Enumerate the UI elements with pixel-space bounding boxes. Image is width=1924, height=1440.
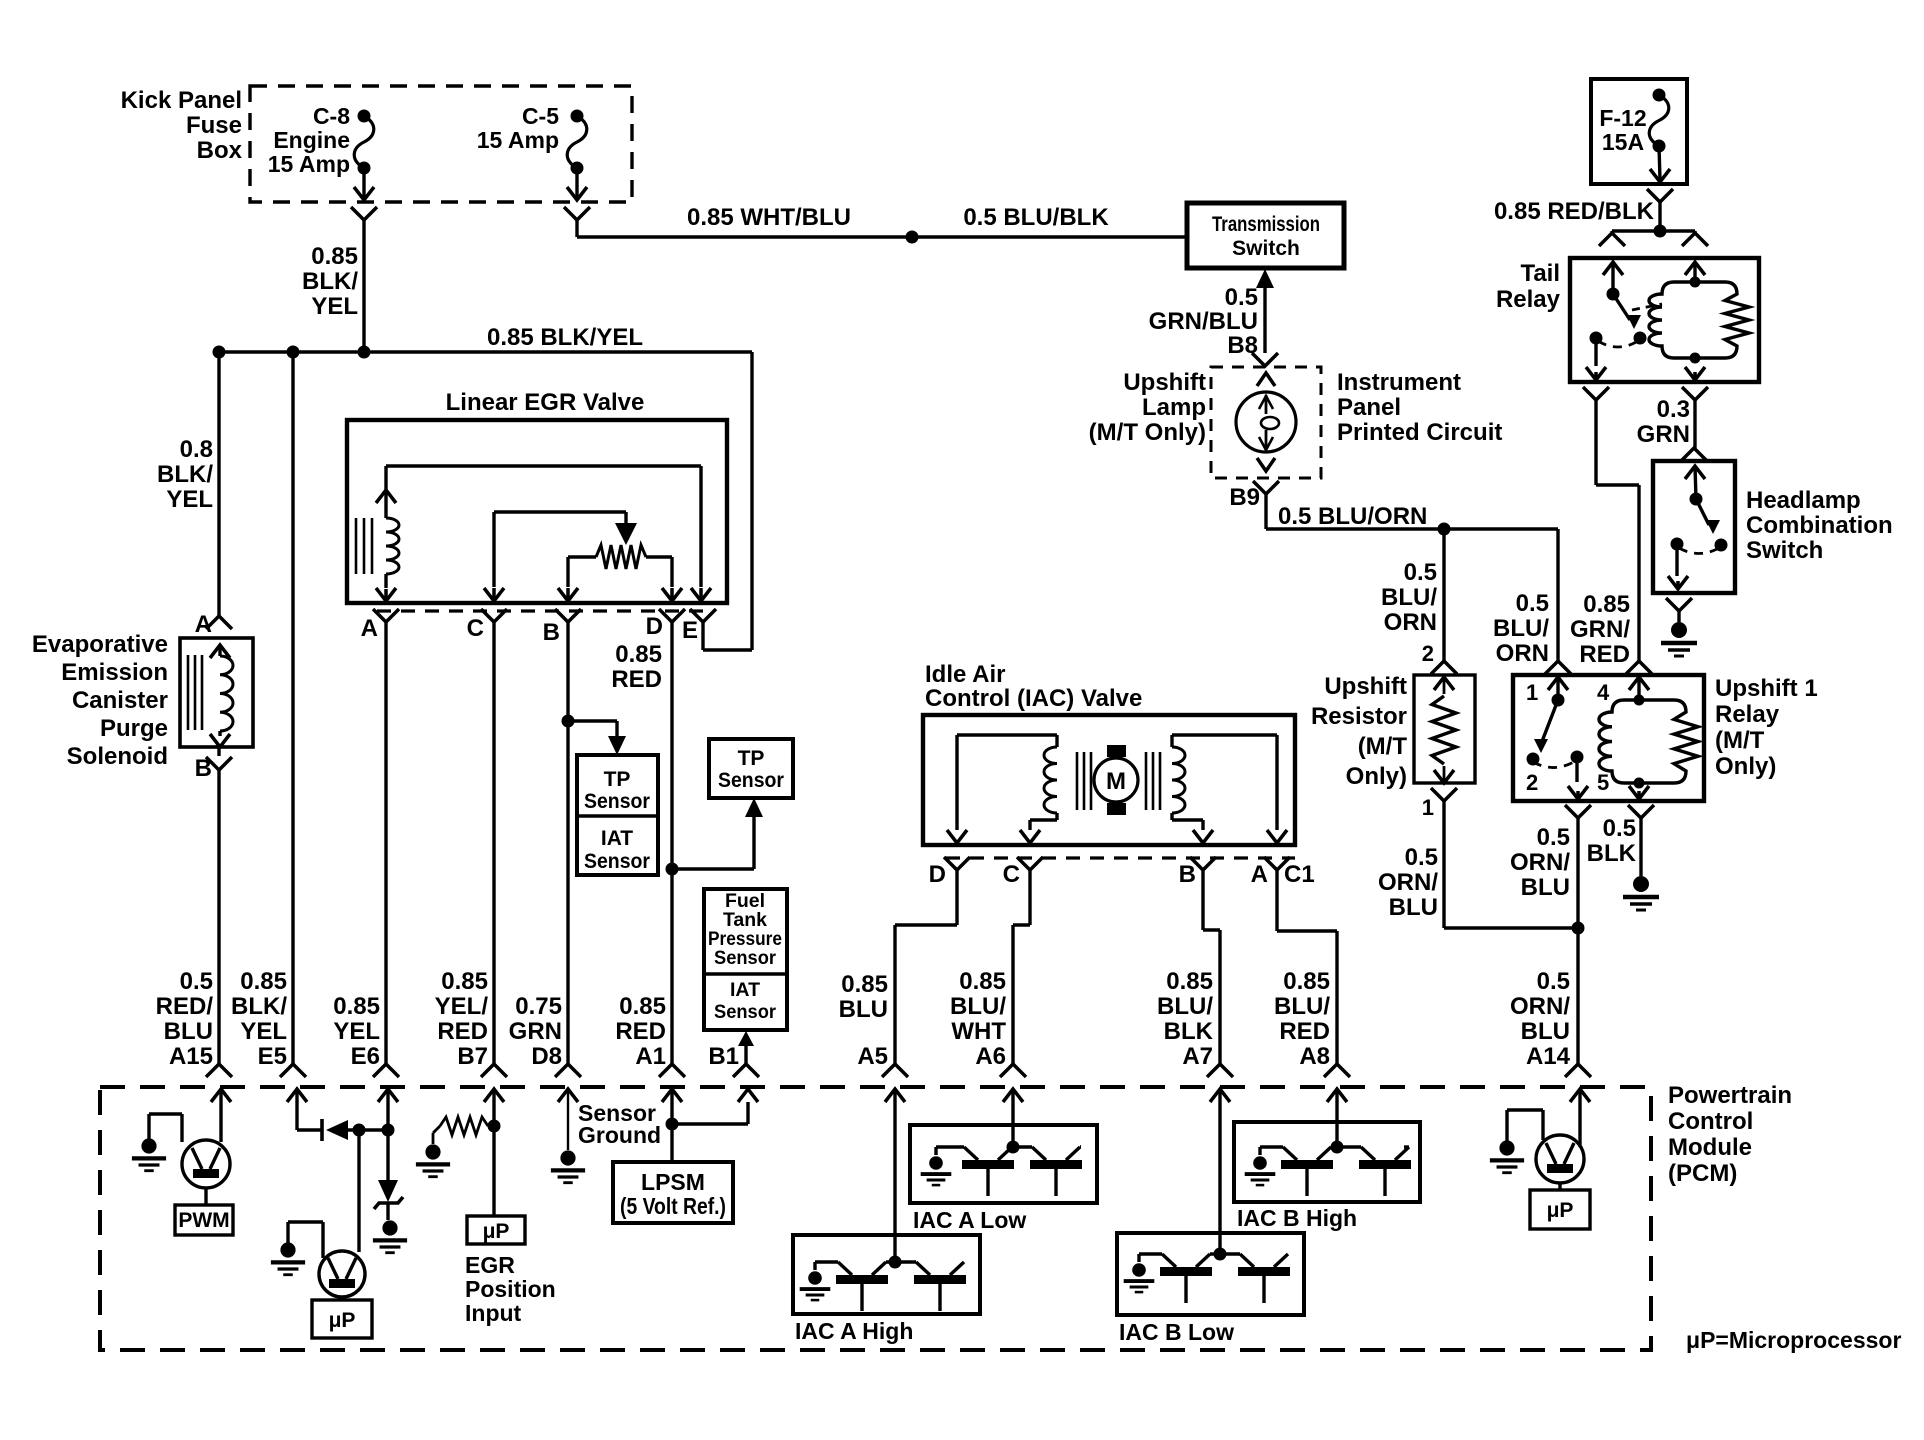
tail relay switch arm xyxy=(1613,294,1641,329)
label EGR pin D xyxy=(646,613,663,640)
tail relay coil xyxy=(1649,277,1749,364)
svg-text:E: E xyxy=(682,617,698,644)
PCM E6 internal wire xyxy=(378,1089,398,1180)
svg-text:Sensor: Sensor xyxy=(718,769,784,792)
svg-text:0.5: 0.5 xyxy=(1404,559,1437,586)
IAC connector dashed line xyxy=(946,856,1295,859)
wire fuse C-8 to BLK/YEL bus xyxy=(362,220,365,352)
label IAC pin C xyxy=(1003,861,1020,888)
svg-text:(PCM): (PCM) xyxy=(1668,1160,1737,1187)
svg-text:A14: A14 xyxy=(1526,1043,1571,1070)
TP sensor / IAT sensor box xyxy=(577,755,658,875)
label B9 xyxy=(1229,484,1260,511)
svg-text:0.85: 0.85 xyxy=(1166,968,1213,995)
evap solenoid coil xyxy=(188,645,233,747)
svg-text:1: 1 xyxy=(1526,680,1538,705)
headlamp switch arm xyxy=(1696,499,1720,534)
svg-text:(M/T Only): (M/T Only) xyxy=(1089,419,1206,446)
wire transistor Q2 to uP xyxy=(340,1297,343,1300)
junction on RED wire xyxy=(666,863,679,876)
wire 0.5 BLU/ORN to relay pin 1 xyxy=(1556,529,1559,661)
svg-text:Solenoid: Solenoid xyxy=(67,743,168,770)
svg-text:TP: TP xyxy=(604,768,631,791)
svg-text:A: A xyxy=(1251,861,1268,888)
relay switch contacts xyxy=(1527,751,1584,766)
svg-text:Box: Box xyxy=(197,137,243,164)
svg-text:Purge: Purge xyxy=(100,715,168,742)
label C1 xyxy=(1284,861,1315,888)
svg-text:A5: A5 xyxy=(857,1043,888,1070)
ground (headlamp switch) xyxy=(1661,622,1697,656)
LPSM box xyxy=(613,1162,733,1223)
svg-text:BLK/: BLK/ xyxy=(302,268,358,295)
junction ORN/BLU xyxy=(1572,922,1585,935)
wire 0.5 ORN/BLU from resistor xyxy=(1444,801,1578,928)
svg-text:Sensor: Sensor xyxy=(714,1001,776,1023)
label TP Sensor xyxy=(718,747,784,792)
svg-text:GRN: GRN xyxy=(509,1018,562,1045)
powertrain control module dashed box xyxy=(100,1087,1651,1350)
svg-text:Ground: Ground xyxy=(578,1122,661,1148)
label 0.85 RED (pin D) xyxy=(611,641,662,693)
svg-text:A8: A8 xyxy=(1299,1043,1330,1070)
wire IAC B to PCM A7 xyxy=(1203,870,1220,1064)
connector IAC pin B xyxy=(1190,857,1216,870)
label IAC A High xyxy=(795,1318,913,1344)
svg-text:Emission: Emission xyxy=(61,659,168,686)
svg-text:μP: μP xyxy=(1547,1199,1574,1222)
wire 0.85 GRN/RED to relay pin 4 xyxy=(1596,400,1639,661)
svg-text:Kick Panel: Kick Panel xyxy=(121,87,242,114)
ground (A15 driver) xyxy=(132,1114,182,1171)
wire bus to evap solenoid A xyxy=(217,352,220,616)
svg-text:0.3: 0.3 xyxy=(1657,396,1690,423)
label pin A (evap) xyxy=(195,611,212,638)
svg-text:2: 2 xyxy=(1526,770,1538,795)
connector EGR pin D xyxy=(659,609,685,622)
uP box (EGR position) xyxy=(467,1216,525,1244)
svg-text:IAT: IAT xyxy=(730,979,760,1001)
svg-text:Instrument: Instrument xyxy=(1337,369,1461,396)
svg-text:C: C xyxy=(1003,861,1020,888)
fuse C-8 label xyxy=(268,103,350,177)
label 0.85 WHT/BLU xyxy=(687,204,851,231)
svg-text:BLU/: BLU/ xyxy=(1381,584,1437,611)
svg-text:0.85 WHT/BLU: 0.85 WHT/BLU xyxy=(687,204,851,231)
svg-text:Sensor: Sensor xyxy=(584,850,650,873)
label 0.85 BLU/WHT A6 xyxy=(950,968,1006,1070)
svg-text:15A: 15A xyxy=(1602,129,1644,155)
label 0.5 RED/ BLU A15 xyxy=(156,968,214,1070)
label Upshift Lamp (M/T Only) xyxy=(1089,369,1206,446)
tail relay dashed arc xyxy=(1598,341,1638,347)
connector PCM pin A1 xyxy=(659,1064,685,1077)
svg-text:Switch: Switch xyxy=(1232,237,1300,260)
wire F-12 to split xyxy=(1658,202,1661,231)
IAC A High driver transistors xyxy=(800,1256,966,1312)
EGR wiper wire to pin C xyxy=(484,512,626,601)
svg-text:IAC A High: IAC A High xyxy=(795,1318,913,1344)
relay switch arm xyxy=(1534,700,1558,753)
headlamp switch contacts xyxy=(1671,538,1728,552)
svg-text:GRN: GRN xyxy=(1637,421,1690,448)
fuel tank pressure sensor / IAT sensor box xyxy=(704,889,787,1030)
ground (relay pin 5) xyxy=(1623,876,1659,910)
label 0.3 GRN xyxy=(1637,396,1690,448)
svg-text:ORN: ORN xyxy=(1384,609,1437,636)
connector pin B1 xyxy=(733,1064,759,1077)
svg-text:BLK: BLK xyxy=(1164,1018,1214,1045)
svg-text:5: 5 xyxy=(1597,770,1609,795)
label EGR Position Input xyxy=(465,1252,556,1326)
svg-text:ORN: ORN xyxy=(1496,640,1549,667)
connector IAC pin D xyxy=(944,857,970,870)
svg-text:D8: D8 xyxy=(531,1043,562,1070)
svg-text:0.5: 0.5 xyxy=(1537,824,1570,851)
connector PCM pin E5 xyxy=(280,1064,306,1077)
svg-text:B9: B9 xyxy=(1229,484,1260,511)
svg-text:Control: Control xyxy=(1668,1108,1753,1135)
connector IAC pin A xyxy=(1264,857,1290,870)
svg-text:B: B xyxy=(543,619,560,646)
tail relay contacts xyxy=(1590,332,1647,345)
connector headlamp switch input xyxy=(1681,448,1707,461)
PCM B1 internal wire xyxy=(672,1089,758,1124)
svg-text:Only): Only) xyxy=(1346,763,1407,790)
upshift relay coil xyxy=(1599,695,1698,789)
svg-text:Combination: Combination xyxy=(1746,512,1893,539)
svg-text:0.85: 0.85 xyxy=(841,971,888,998)
ground (A14 driver) xyxy=(1490,1110,1543,1173)
svg-text:C-8: C-8 xyxy=(313,103,350,129)
svg-text:M: M xyxy=(1106,768,1126,795)
svg-text:B1: B1 xyxy=(708,1043,739,1070)
IAC winding A xyxy=(947,735,1057,843)
label Evaporative Emission Canister Purge Solenoid xyxy=(32,631,168,770)
svg-text:Fuse: Fuse xyxy=(186,112,242,139)
label 0.5 ORN/BLU (pin2) xyxy=(1510,824,1570,901)
label Powertrain Control Module (PCM) xyxy=(1668,1082,1792,1187)
relay pin numbers xyxy=(1526,680,1610,795)
tail relay coil input xyxy=(1685,262,1705,282)
label Upshift Resistor (M/T Only) xyxy=(1311,673,1407,790)
connector PCM pin A7 xyxy=(1207,1064,1233,1077)
IAC core bars left xyxy=(1077,752,1091,810)
wire RED/BLK split xyxy=(1612,229,1695,232)
wire A1 to LPSM xyxy=(670,1124,673,1162)
label 0.75 GRN D8 xyxy=(509,993,562,1070)
transistor Q3 (upshift driver) xyxy=(1536,1135,1584,1183)
PCM E5 internal wire xyxy=(287,1089,322,1130)
svg-text:BLU/: BLU/ xyxy=(1274,993,1330,1020)
wire evap B to PCM A15 xyxy=(217,747,220,1064)
label EGR pin A xyxy=(361,615,378,642)
svg-text:PWM: PWM xyxy=(178,1209,229,1232)
svg-text:YEL: YEL xyxy=(166,486,213,513)
label 0.85 BLK/YEL (fuse drop) xyxy=(302,243,358,320)
label 0.5 GRN/BLU B8 xyxy=(1149,284,1258,359)
svg-text:Printed Circuit: Printed Circuit xyxy=(1337,419,1502,446)
svg-text:Control (IAC) Valve: Control (IAC) Valve xyxy=(925,685,1142,712)
svg-text:IAC B High: IAC B High xyxy=(1237,1205,1357,1231)
connector resistor pin 1 xyxy=(1431,788,1457,801)
EGR pot left end to pin B xyxy=(558,557,578,601)
svg-text:YEL: YEL xyxy=(311,293,358,320)
connector PCM pin B7 xyxy=(481,1064,507,1077)
svg-text:0.85: 0.85 xyxy=(333,993,380,1020)
svg-text:A15: A15 xyxy=(169,1043,213,1070)
EGR internal wire coil-top to pin E xyxy=(386,466,711,601)
EGR potentiometer xyxy=(568,545,682,601)
svg-text:Tail: Tail xyxy=(1520,260,1560,287)
label 0.85 BLU/RED A8 xyxy=(1274,968,1330,1070)
label B1 xyxy=(708,1043,739,1070)
svg-text:Idle Air: Idle Air xyxy=(925,661,1005,688)
wire branch to TP/IAT sensor xyxy=(568,721,626,755)
svg-text:0.5 BLU/ORN: 0.5 BLU/ORN xyxy=(1278,503,1427,530)
svg-text:A6: A6 xyxy=(975,1043,1006,1070)
svg-text:0.8: 0.8 xyxy=(180,436,213,463)
connector EGR pin E xyxy=(690,609,716,622)
PCM A15 internal wire xyxy=(211,1089,231,1142)
wire 0.85 WHT/BLU / 0.5 BLU/BLK xyxy=(577,220,1187,237)
label uP=Microprocessor xyxy=(1686,1327,1901,1353)
transmission switch box xyxy=(1187,203,1344,268)
tail relay right output xyxy=(1685,358,1705,380)
svg-text:B7: B7 xyxy=(457,1043,488,1070)
svg-text:0.5: 0.5 xyxy=(1225,284,1258,311)
svg-text:E5: E5 xyxy=(258,1043,287,1070)
svg-text:Switch: Switch xyxy=(1746,537,1823,564)
svg-text:RED: RED xyxy=(1279,1018,1330,1045)
svg-text:0.85 RED/BLK: 0.85 RED/BLK xyxy=(1494,198,1655,225)
wire bus to PCM E5 xyxy=(291,352,294,1064)
svg-text:Position: Position xyxy=(465,1276,556,1302)
headlamp combination switch box xyxy=(1653,461,1735,593)
svg-text:BLU: BLU xyxy=(164,1018,213,1045)
connector EGR pin A xyxy=(373,609,399,622)
PCM A6 internal wire xyxy=(1003,1089,1023,1147)
svg-text:D: D xyxy=(929,861,946,888)
svg-text:BLK: BLK xyxy=(1587,840,1637,867)
wire EGR D to PCM A1 xyxy=(670,622,673,1064)
label EGR pin C xyxy=(467,615,484,642)
label pin 2 (resistor) xyxy=(1422,641,1434,666)
svg-text:0.85: 0.85 xyxy=(1283,968,1330,995)
relay pin 2 output xyxy=(1565,757,1591,818)
svg-text:0.85: 0.85 xyxy=(240,968,287,995)
svg-text:BLU/: BLU/ xyxy=(1493,615,1549,642)
relay pin4 input xyxy=(1629,677,1649,700)
ground (zener) xyxy=(373,1220,407,1252)
label EGR pin E xyxy=(682,617,698,644)
svg-text:Resistor: Resistor xyxy=(1311,703,1407,730)
svg-text:C: C xyxy=(467,615,484,642)
connector PCM pin E6 xyxy=(373,1064,399,1077)
label 0.8 BLK/YEL xyxy=(157,436,213,513)
svg-text:0.85: 0.85 xyxy=(959,968,1006,995)
ground (Q2 driver) xyxy=(271,1222,323,1275)
svg-text:μP: μP xyxy=(329,1309,356,1332)
svg-text:0.5: 0.5 xyxy=(1603,815,1636,842)
svg-text:Linear EGR Valve: Linear EGR Valve xyxy=(446,389,645,416)
label TP Sensor IAT Sensor xyxy=(584,768,650,873)
connector PCM pin D8 xyxy=(555,1064,581,1077)
tail relay box xyxy=(1570,258,1759,382)
label IAC A Low xyxy=(913,1207,1026,1233)
wire to transistor Q2 xyxy=(357,1130,360,1252)
label Instrument Panel Printed Circuit xyxy=(1337,369,1502,446)
connector below fuse C-5 xyxy=(564,207,590,220)
instrument panel printed circuit dashed box xyxy=(1211,367,1321,478)
label Kick Panel Fuse Box xyxy=(121,87,243,164)
svg-text:ORN/: ORN/ xyxy=(1378,869,1438,896)
svg-text:0.5: 0.5 xyxy=(180,968,213,995)
label 0.85 BLK/ YEL E5 xyxy=(231,968,287,1070)
wire B7 to uP xyxy=(492,1126,495,1216)
linear EGR valve box xyxy=(347,420,727,603)
svg-text:IAT: IAT xyxy=(601,827,633,850)
transistor Q2 (EGR driver) xyxy=(319,1251,365,1297)
label IAC pin D xyxy=(929,861,946,888)
svg-text:GRN/: GRN/ xyxy=(1570,616,1630,643)
svg-text:0.85 BLK/YEL: 0.85 BLK/YEL xyxy=(487,324,643,351)
svg-text:RED: RED xyxy=(1579,641,1630,668)
connector PCM pin A6 xyxy=(1000,1064,1026,1077)
connector tail relay left input xyxy=(1599,231,1625,246)
svg-text:Sensor: Sensor xyxy=(584,790,650,813)
wire 0.3 GRN xyxy=(1693,400,1696,448)
fuse C-5 xyxy=(567,110,587,201)
svg-text:C1: C1 xyxy=(1284,861,1315,888)
EGR solenoid coil xyxy=(356,466,399,601)
label F-12 15A xyxy=(1599,105,1646,155)
connector PCM pin A15 xyxy=(206,1064,232,1077)
label 0.5 BLU/ORN (relay feed) xyxy=(1493,590,1549,667)
svg-text:E6: E6 xyxy=(351,1043,380,1070)
junction BLU/ORN xyxy=(1438,523,1451,536)
connector IAC pin C xyxy=(1017,857,1043,870)
connector B8 xyxy=(1252,353,1278,366)
svg-text:0.85: 0.85 xyxy=(1583,591,1630,618)
svg-text:RED/: RED/ xyxy=(156,993,214,1020)
wire transistor to PWM xyxy=(204,1188,207,1205)
svg-text:RED: RED xyxy=(615,1018,666,1045)
svg-text:0.85: 0.85 xyxy=(619,993,666,1020)
wire B8 to transmission switch xyxy=(1256,269,1274,353)
wire BLU/ORN to upshift resistor xyxy=(1442,529,1445,661)
label 0.5 ORN/BLU A14 xyxy=(1510,968,1571,1070)
IAC B High driver transistors xyxy=(1245,1141,1411,1197)
evaporative emission canister purge solenoid box xyxy=(180,638,253,747)
svg-text:LPSM: LPSM xyxy=(641,1169,705,1195)
label 0.85 GRN/RED xyxy=(1570,591,1630,668)
IAC B Low driver box xyxy=(1117,1233,1304,1315)
IAC motor xyxy=(1094,745,1138,815)
junction dots on BLK/YEL bus xyxy=(213,346,371,359)
svg-text:μP: μP xyxy=(483,1220,510,1243)
label pin B (evap) xyxy=(195,755,212,782)
svg-text:0.5 BLU/BLK: 0.5 BLU/BLK xyxy=(963,204,1109,231)
ground (B7 resistor) xyxy=(416,1144,450,1176)
IAC A Low driver box xyxy=(910,1125,1097,1203)
svg-text:Headlamp: Headlamp xyxy=(1746,487,1861,514)
svg-text:Module: Module xyxy=(1668,1134,1752,1161)
wire BLK/YEL bus to EGR pin E xyxy=(703,352,752,650)
svg-text:F-12: F-12 xyxy=(1599,105,1646,131)
transistor Q1 (PWM driver) xyxy=(182,1140,230,1188)
svg-text:RED: RED xyxy=(611,666,662,693)
headlamp switch input xyxy=(1685,466,1705,506)
label 0.5 BLU/ORN xyxy=(1278,503,1427,530)
wire EGR A to PCM E6 xyxy=(384,622,387,1064)
label EGR pin B xyxy=(543,619,560,646)
label 0.85 RED A1 xyxy=(615,993,666,1070)
PCM A14 internal wire xyxy=(1570,1089,1590,1147)
upshift 1 relay box xyxy=(1513,675,1704,801)
PCM A5 internal wire xyxy=(885,1089,905,1262)
svg-text:YEL: YEL xyxy=(333,1018,380,1045)
wire IAC D to PCM A5 xyxy=(895,870,957,1064)
svg-text:Upshift: Upshift xyxy=(1123,369,1206,396)
label IAC pin B xyxy=(1179,861,1196,888)
label Linear EGR Valve xyxy=(446,389,645,416)
tail relay actuator dashed link xyxy=(1632,304,1662,310)
svg-text:A1: A1 xyxy=(635,1043,666,1070)
upshift lamp xyxy=(1236,392,1296,452)
connector tail relay left out xyxy=(1583,387,1609,400)
IAC winding B xyxy=(1172,735,1287,843)
svg-text:Only): Only) xyxy=(1715,753,1776,780)
connector PCM pin A8 xyxy=(1324,1064,1350,1077)
svg-text:BLU: BLU xyxy=(1521,1018,1570,1045)
svg-text:BLK/: BLK/ xyxy=(157,461,213,488)
connector evap pin B xyxy=(206,757,232,770)
label 0.5 BLU/ORN (resistor feed) xyxy=(1381,559,1437,636)
fuse C-5 label xyxy=(477,103,559,153)
wire transistor Q3 to uP xyxy=(1558,1183,1561,1190)
svg-text:Lamp: Lamp xyxy=(1142,394,1206,421)
label 0.5 BLK xyxy=(1587,815,1637,867)
label 0.5 BLU/BLK xyxy=(963,204,1109,231)
headlamp switch output xyxy=(1668,544,1688,589)
svg-text:EGR: EGR xyxy=(465,1252,515,1278)
connector tail relay right out xyxy=(1682,387,1708,400)
PCM A7 internal wire xyxy=(1210,1089,1230,1254)
svg-text:0.75: 0.75 xyxy=(515,993,562,1020)
svg-text:0.85: 0.85 xyxy=(311,243,358,270)
wire zener to ground xyxy=(386,1203,389,1220)
label IAC B Low xyxy=(1119,1319,1234,1345)
relay switch dashed arc xyxy=(1533,760,1577,768)
connector evap pin A xyxy=(206,616,232,629)
svg-text:BLU/: BLU/ xyxy=(950,993,1006,1020)
svg-text:BLU: BLU xyxy=(1521,874,1570,901)
EGR wiper arrow xyxy=(615,512,637,545)
svg-text:Upshift 1: Upshift 1 xyxy=(1715,675,1818,702)
ground (sensor ground) xyxy=(551,1150,585,1182)
connector EGR pin C xyxy=(481,609,507,622)
svg-text:WHT: WHT xyxy=(951,1018,1006,1045)
wire relay pin2 to PCM A14 xyxy=(1576,818,1579,1064)
svg-text:ORN/: ORN/ xyxy=(1510,993,1570,1020)
label 0.5 ORN/BLU (resistor out) xyxy=(1378,844,1438,921)
wire B1 to IAT sensor xyxy=(738,1031,754,1064)
relay pin 5 output xyxy=(1628,783,1654,818)
TP sensor box xyxy=(709,739,793,798)
label 0.85 YEL E6 xyxy=(333,993,380,1070)
connector resistor pin 2 xyxy=(1431,661,1457,674)
